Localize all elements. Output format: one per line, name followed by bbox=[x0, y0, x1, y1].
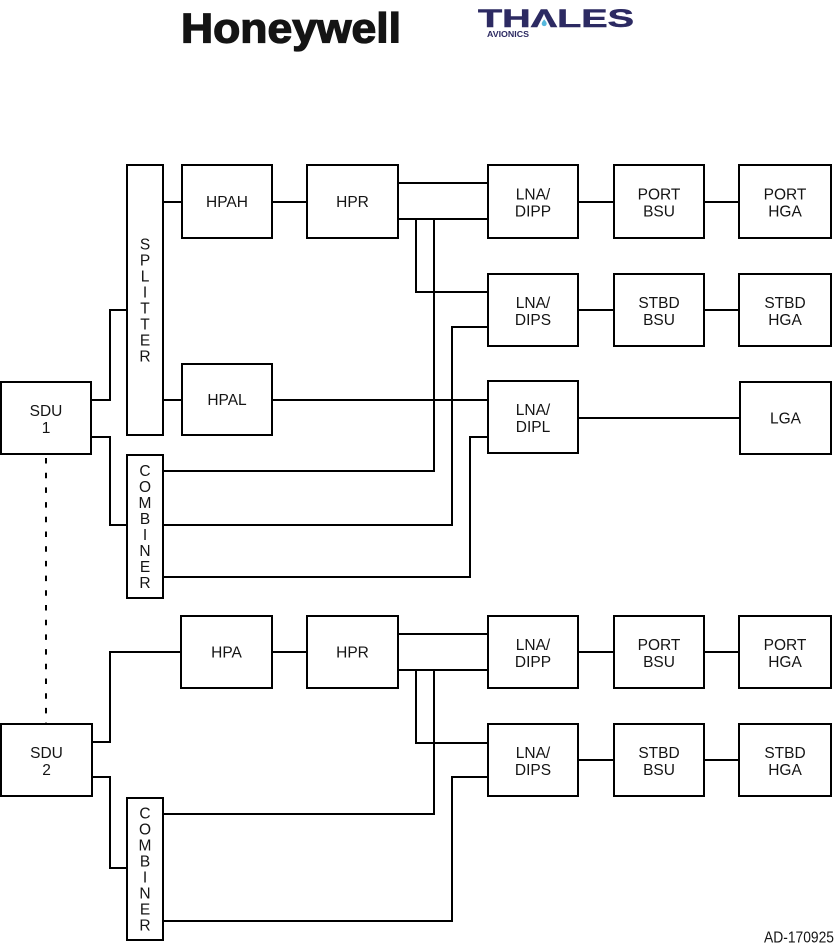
block PORT BSU1 bbox=[614, 165, 704, 238]
svg-text:HGA: HGA bbox=[768, 312, 802, 329]
block LNA/DIPL1 bbox=[488, 381, 578, 453]
block LNA/DIPS1 bbox=[488, 274, 578, 346]
svg-text:LNA/: LNA/ bbox=[516, 637, 551, 654]
wire branch to LNA/DIPS2 bbox=[416, 670, 488, 743]
svg-text:AD-170925: AD-170925 bbox=[764, 930, 834, 946]
block HPR1 bbox=[307, 165, 398, 238]
svg-text:E: E bbox=[140, 901, 150, 918]
block PORT BSU2 bbox=[614, 616, 704, 688]
block STBD BSU2 bbox=[614, 724, 704, 796]
block COMBINER1 bbox=[127, 455, 163, 598]
svg-text:HGA: HGA bbox=[768, 654, 802, 671]
svg-text:DIPS: DIPS bbox=[515, 762, 551, 779]
svg-text:N: N bbox=[139, 885, 150, 902]
svg-text:L: L bbox=[141, 268, 150, 285]
svg-text:E: E bbox=[140, 559, 150, 576]
svg-text:R: R bbox=[139, 917, 150, 934]
svg-text:T: T bbox=[140, 316, 150, 333]
svg-text:HPAH: HPAH bbox=[206, 194, 248, 211]
block LNA/DIPP2 bbox=[488, 616, 578, 688]
wire LNA/DIPP2 to PORT BSU2 bbox=[578, 651, 614, 653]
svg-text:R: R bbox=[139, 348, 150, 365]
svg-text:B: B bbox=[140, 853, 150, 870]
svg-text:I: I bbox=[143, 869, 147, 886]
svg-text:DIPP: DIPP bbox=[515, 654, 551, 671]
svg-text:PORT: PORT bbox=[638, 187, 681, 204]
wire HPR2 to LNA/DIPP2 upper bbox=[398, 633, 488, 635]
block COMBINER2 bbox=[127, 798, 163, 940]
svg-text:1: 1 bbox=[42, 420, 51, 437]
svg-text:M: M bbox=[139, 495, 152, 512]
block SDU2 bbox=[1, 724, 92, 796]
block LGA bbox=[740, 382, 831, 454]
svg-text:SDU: SDU bbox=[30, 745, 63, 762]
wire SDU1 to SPLITTER bbox=[91, 310, 127, 400]
svg-text:I: I bbox=[143, 284, 147, 301]
logo THALES blue dot bbox=[542, 19, 547, 26]
wire HPA to HPR2 bbox=[272, 651, 307, 653]
svg-text:LNA/: LNA/ bbox=[516, 402, 551, 419]
svg-text:T: T bbox=[140, 300, 150, 317]
wire SPLITTER to HPAL bbox=[163, 399, 182, 401]
svg-text:Honeywell: Honeywell bbox=[181, 5, 401, 52]
svg-text:HPR: HPR bbox=[336, 645, 369, 662]
wire LNA/DIPS1 to STBD BSU1 bbox=[578, 309, 614, 311]
block PORT HGA2 bbox=[739, 616, 831, 688]
svg-text:BSU: BSU bbox=[643, 203, 675, 220]
svg-text:E: E bbox=[140, 332, 150, 349]
svg-text:P: P bbox=[140, 252, 150, 269]
wire COMBINER1 out3 bbox=[163, 437, 488, 577]
svg-text:STBD: STBD bbox=[764, 745, 805, 762]
logo THALES bbox=[478, 5, 634, 39]
svg-text:THΛLES: THΛLES bbox=[478, 5, 634, 33]
wire SDU2 to HPA bbox=[92, 652, 181, 742]
svg-text:B: B bbox=[140, 511, 150, 528]
svg-text:DIPP: DIPP bbox=[515, 203, 551, 220]
block HPA bbox=[181, 616, 272, 688]
wire dashed SDU1 to SDU2 bbox=[45, 458, 47, 723]
svg-text:HPAL: HPAL bbox=[207, 392, 247, 409]
svg-text:SDU: SDU bbox=[30, 403, 63, 420]
wire PORT BSU2 to PORT HGA2 bbox=[704, 651, 739, 653]
block SDU1 bbox=[1, 382, 91, 454]
svg-text:DIPS: DIPS bbox=[515, 312, 551, 329]
block LNA/DIPP1 bbox=[488, 165, 578, 238]
block PORT HGA1 bbox=[739, 165, 831, 238]
block STBD HGA1 bbox=[739, 274, 831, 346]
block HPAH bbox=[182, 165, 272, 238]
block STBD HGA2 bbox=[739, 724, 831, 796]
wire LNA/DIPP1 to PORT BSU1 bbox=[578, 201, 614, 203]
svg-text:I: I bbox=[143, 527, 147, 544]
svg-text:DIPL: DIPL bbox=[516, 419, 551, 436]
wire STBD BSU1 to STBD HGA1 bbox=[704, 309, 739, 311]
svg-text:O: O bbox=[139, 821, 151, 838]
svg-text:BSU: BSU bbox=[643, 654, 675, 671]
wire HPAH to HPR1 bbox=[272, 201, 307, 203]
svg-text:AVIONICS: AVIONICS bbox=[487, 30, 530, 39]
svg-text:STBD: STBD bbox=[638, 295, 679, 312]
wire COMBINER1 out2 bbox=[163, 327, 488, 525]
logo Honeywell bbox=[181, 5, 401, 52]
svg-text:O: O bbox=[139, 479, 151, 496]
block HPAL bbox=[182, 364, 272, 435]
svg-text:M: M bbox=[139, 837, 152, 854]
svg-text:PORT: PORT bbox=[764, 187, 807, 204]
wire COMBINER2 out1 bbox=[163, 670, 434, 814]
svg-text:STBD: STBD bbox=[764, 295, 805, 312]
wire SDU1 to COMBINER1 bbox=[91, 437, 127, 525]
svg-text:C: C bbox=[139, 463, 150, 480]
svg-text:R: R bbox=[139, 575, 150, 592]
svg-text:PORT: PORT bbox=[764, 637, 807, 654]
wire SPLITTER to HPAH bbox=[163, 201, 182, 203]
svg-text:LGA: LGA bbox=[770, 411, 802, 428]
svg-text:N: N bbox=[139, 543, 150, 560]
block SPLITTER bbox=[127, 165, 163, 435]
wire SDU2 to COMBINER2 bbox=[92, 777, 127, 868]
svg-text:HPR: HPR bbox=[336, 194, 369, 211]
block LNA/DIPS2 bbox=[488, 724, 578, 796]
wire HPR1 to LNA/DIPP1 upper bbox=[398, 182, 488, 184]
svg-text:STBD: STBD bbox=[638, 745, 679, 762]
svg-text:LNA/: LNA/ bbox=[516, 187, 551, 204]
svg-text:HGA: HGA bbox=[768, 762, 802, 779]
svg-text:BSU: BSU bbox=[643, 312, 675, 329]
svg-text:2: 2 bbox=[42, 762, 51, 779]
svg-text:BSU: BSU bbox=[643, 762, 675, 779]
wire STBD BSU2 to STBD HGA2 bbox=[704, 759, 739, 761]
svg-text:LNA/: LNA/ bbox=[516, 745, 551, 762]
svg-text:PORT: PORT bbox=[638, 637, 681, 654]
block STBD BSU1 bbox=[614, 274, 704, 346]
svg-text:S: S bbox=[140, 236, 150, 253]
block HPR2 bbox=[307, 616, 398, 688]
wire COMBINER1 out1 bbox=[163, 219, 434, 471]
wire branch to LNA/DIPS1 bbox=[416, 219, 488, 292]
wire LNA/DIPL1 to LGA bbox=[578, 417, 740, 419]
svg-text:C: C bbox=[139, 805, 150, 822]
svg-text:LNA/: LNA/ bbox=[516, 295, 551, 312]
wire PORT BSU1 to PORT HGA1 bbox=[704, 201, 739, 203]
wire HPR1 to LNA/DIPP1 lower bbox=[398, 218, 488, 220]
svg-text:HPA: HPA bbox=[211, 645, 242, 662]
wire HPR2 to LNA/DIPP2 lower bbox=[398, 669, 488, 671]
wire COMBINER2 out2 bbox=[163, 777, 488, 921]
wire LNA/DIPS2 to STBD BSU2 bbox=[578, 759, 614, 761]
wire HPAL to LNA/DIPL1 bbox=[272, 399, 488, 401]
svg-text:HGA: HGA bbox=[768, 203, 802, 220]
